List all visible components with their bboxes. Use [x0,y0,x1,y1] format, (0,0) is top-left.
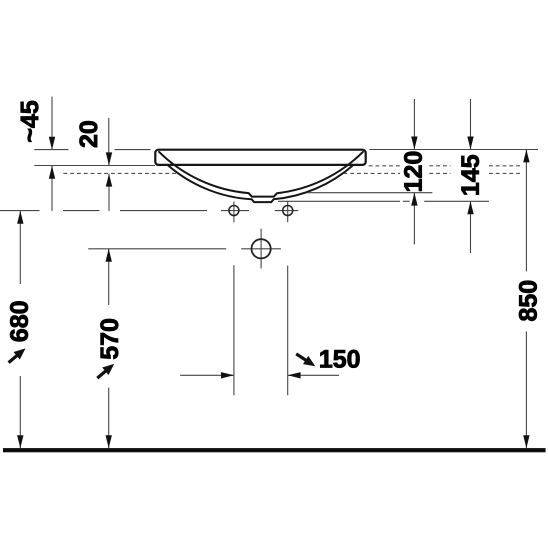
dimension ~45 upper line with down arrow [49,97,55,150]
label 20 [80,121,98,147]
tap hole crosshair vertical [260,229,262,269]
dashed countertop line right of basin, segment 1 [369,165,400,167]
reference line at basin underside, segment 1 [0,210,40,212]
dashed lower line right of basin, segment 2 [429,172,450,174]
tap-hole reference line [88,248,226,250]
right fixing hole crosshair horizontal [275,210,298,212]
leader arrow for 680 [9,348,26,362]
dashed lower line right of basin, segment 1 [344,172,401,174]
leader line at bowl inner depth (120 lower bound) [307,192,432,194]
dimension 150 right line with left arrow [288,372,339,378]
label 145 [462,155,479,194]
reference line at basin underside, segment 2 [63,210,100,212]
leader line at bowl outer depth (145 lower bound), segment 1 [278,200,400,202]
dimension 850 line upper segment with up arrow [523,150,529,272]
dashed countertop line right of basin, segment 3 [489,165,522,167]
dashed lower line left of basin [63,172,176,174]
label 150 [320,350,359,368]
left fixing hole crosshair horizontal [221,210,249,212]
dashed countertop line right of basin, segment 2 [429,165,450,167]
dimension ~45 lower line with up arrow [49,166,55,211]
label ~45 [21,101,38,142]
basin inner bowl arc with drain notch [159,151,364,196]
dimension 145 lower line with up arrow [467,201,473,253]
leader arrow for 150 [296,354,315,366]
dimension 570 line lower segment with down arrow at floor [106,388,112,449]
extension line right (150 dim) [287,266,289,396]
right fixing hole circle [283,206,293,216]
right fixing hole crosshair vertical [287,202,289,223]
dimension 680 line upper segment with up arrow [17,211,23,284]
rim-top extension line right of basin [369,149,538,151]
dimension 680 line lower segment with down arrow at floor [17,376,23,448]
dimension 20 upper line with down arrow [106,118,112,165]
leader line at bowl outer depth (145 lower bound), segment 3 [424,200,489,202]
dashed lower line right of basin, segment 3 [489,172,522,174]
left fixing hole crosshair vertical [233,202,235,223]
dimension 850 line lower segment with down arrow at floor [523,331,529,448]
reference line at basin underside, segment 3 [120,210,207,212]
basin outer bowl arc with drain protrusion [168,165,354,202]
dimension 150 left line with right arrow [180,372,234,378]
extension line left (150 dim) [233,265,235,395]
label 570 [100,319,118,359]
tick line at rim-top level, left segment 1 [34,149,68,151]
left fixing hole circle [229,206,239,216]
dimension 570 line upper segment with up arrow [106,249,112,305]
label 120 [404,152,422,191]
leader line at bowl outer depth (145 lower bound), segment 2 [403,200,410,202]
tap hole circle [252,239,271,258]
dimension 20 lower line with up arrow [106,174,112,211]
tap hole crosshair horizontal [241,248,281,250]
label 850 [519,281,537,321]
basin rim [155,150,365,165]
dimension 120 lower line with up arrow [411,193,417,245]
dimension 145 upper line with down arrow [467,99,473,149]
dimension 120 upper line with down arrow [411,99,417,149]
tick line at rim-top level, left segment 2 [115,149,151,151]
floor line [3,448,546,452]
label 680 [10,301,28,341]
countertop solid line left of basin [34,165,155,167]
leader arrow for 570 [97,364,114,378]
